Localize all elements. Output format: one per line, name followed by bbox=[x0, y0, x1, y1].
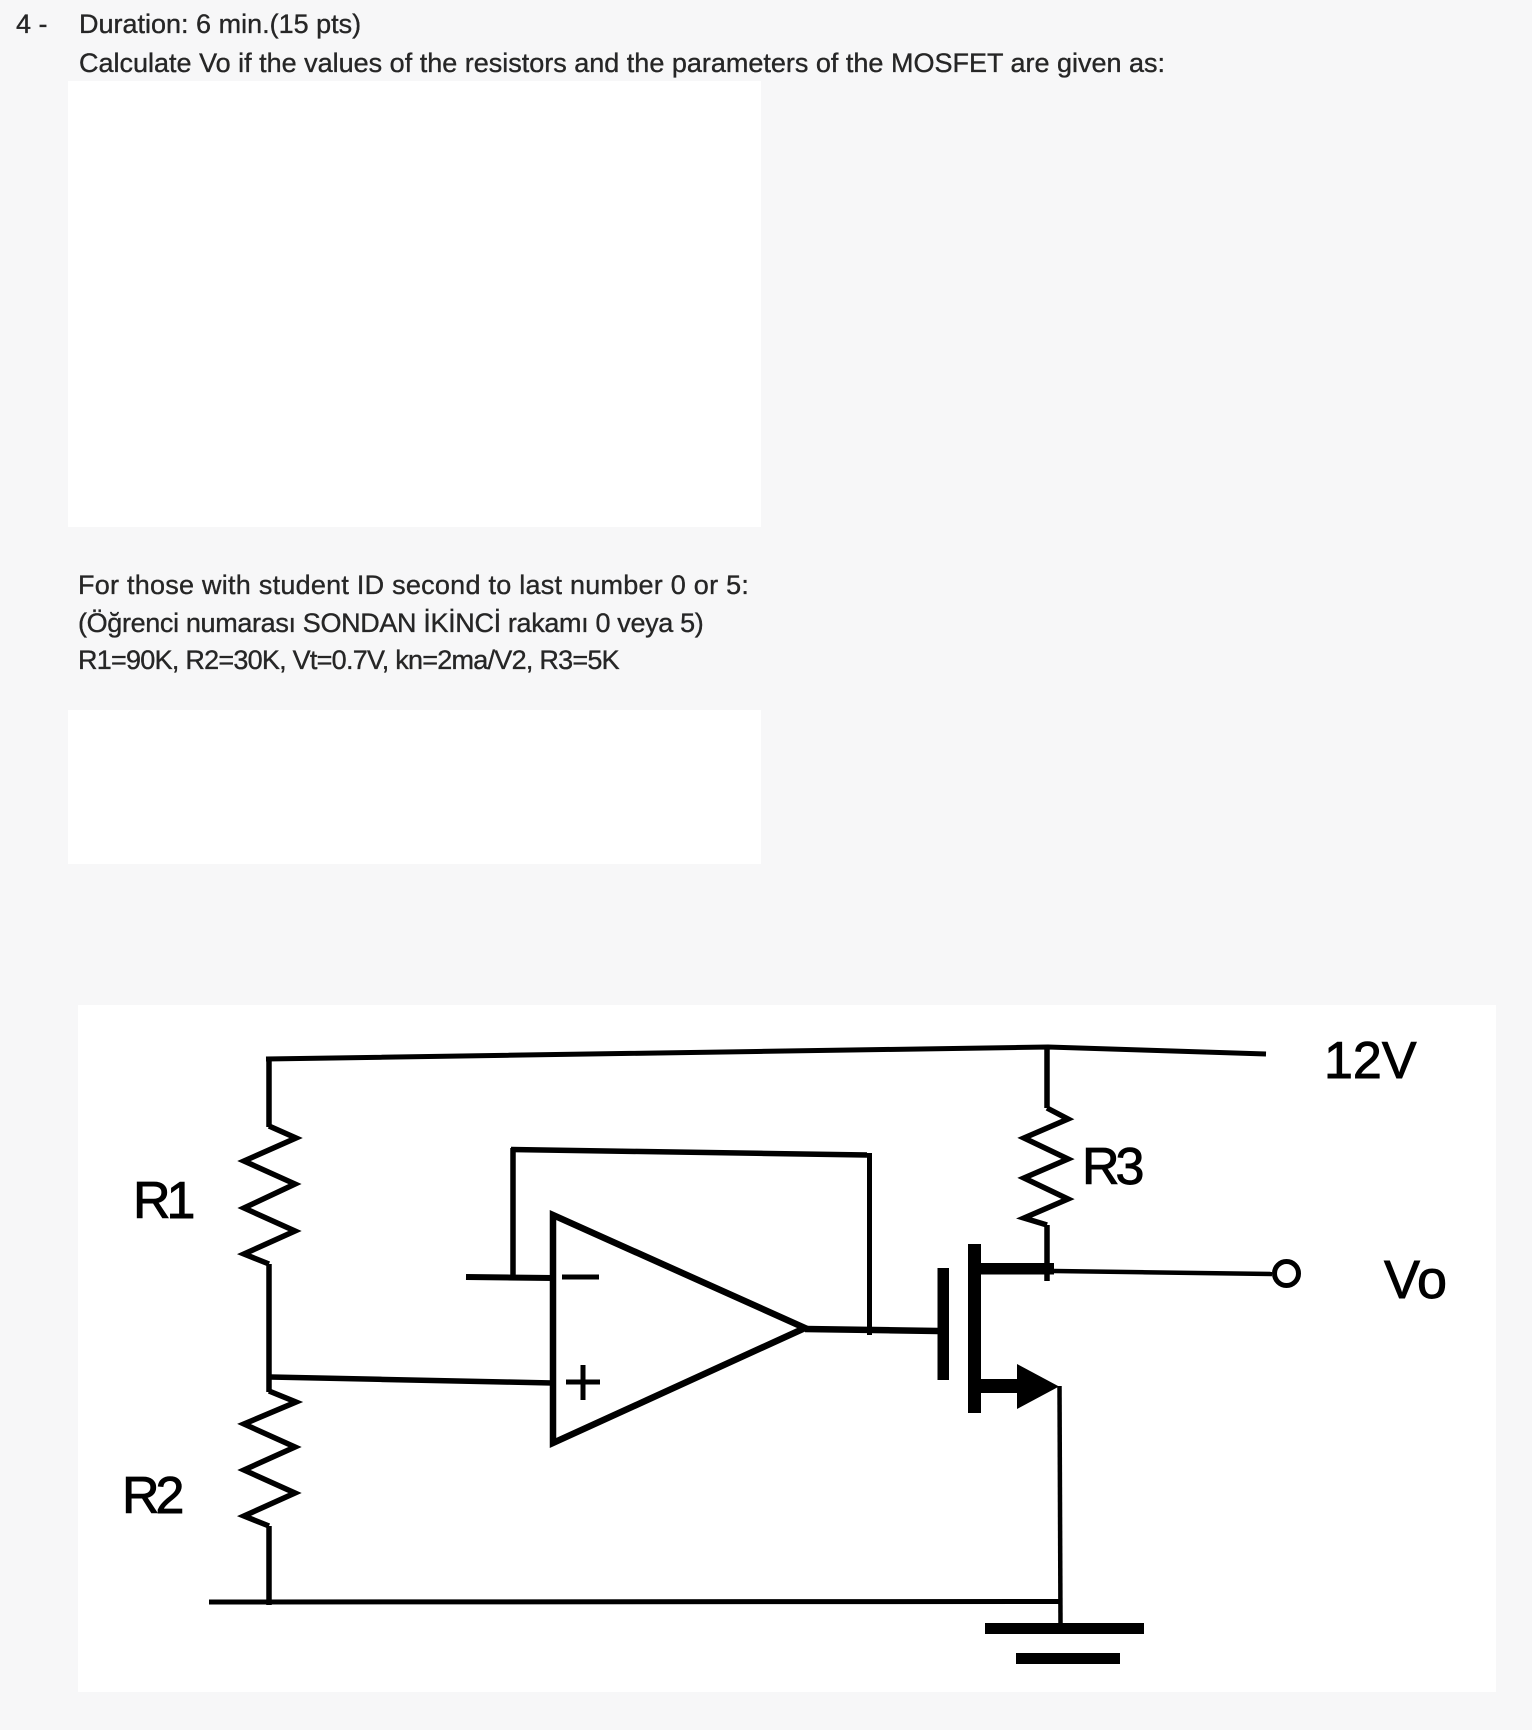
wire bottom ground rail bbox=[209, 1599, 1061, 1605]
svg-text:R1: R1 bbox=[133, 1172, 194, 1230]
wire inverting input bbox=[466, 1277, 553, 1278]
white answer box 2 bbox=[68, 710, 761, 864]
transistor Q1 source bar bbox=[976, 1379, 1018, 1393]
resistor R3 bbox=[1024, 1108, 1068, 1225]
svg-text:12V: 12V bbox=[1324, 1032, 1417, 1090]
wire op-amp output to gate bbox=[805, 1329, 938, 1331]
paragraph lines bbox=[78, 566, 749, 604]
white answer box 1 bbox=[68, 81, 761, 527]
label - input bbox=[562, 1275, 599, 1280]
wire 12V top rail bbox=[266, 1047, 1266, 1059]
transistor Q1 drain bar bbox=[981, 1263, 1054, 1275]
circuit white panel bbox=[78, 1005, 1496, 1692]
label + input bbox=[566, 1380, 600, 1385]
wire R2 bottom lead bbox=[266, 1526, 272, 1605]
wire feedback left vertical bbox=[510, 1148, 516, 1278]
ground bbox=[985, 1623, 1144, 1634]
transistor Q1 source arrow bbox=[1017, 1364, 1059, 1409]
svg-text:R3: R3 bbox=[1082, 1138, 1143, 1196]
svg-text:R2: R2 bbox=[122, 1467, 183, 1525]
line: Calculate Vo bbox=[79, 44, 1165, 82]
wire feedback right vertical bbox=[867, 1153, 872, 1335]
node Vo terminal circle bbox=[1275, 1262, 1299, 1286]
resistor R3 top lead bbox=[1044, 1048, 1050, 1108]
wire R1 to node A bbox=[266, 1264, 272, 1392]
resistor R2 bbox=[244, 1391, 296, 1526]
wire source to ground bbox=[1060, 1386, 1061, 1623]
wire node A to op-amp + input bbox=[270, 1377, 553, 1383]
op-amp U1 bbox=[553, 1215, 805, 1443]
svg-text:Vo: Vo bbox=[1384, 1250, 1447, 1310]
transistor Q1 channel bar bbox=[968, 1244, 981, 1413]
question number bbox=[16, 5, 48, 43]
line: Duration bbox=[79, 5, 361, 43]
wire feedback top bbox=[511, 1150, 867, 1156]
wire R1 top lead bbox=[266, 1057, 272, 1127]
wire R3 bottom lead to drain bbox=[1044, 1225, 1050, 1281]
wire drain to output terminal bbox=[1054, 1271, 1272, 1274]
resistor R1 bbox=[244, 1126, 296, 1264]
transistor Q1 gate bar bbox=[938, 1268, 950, 1380]
